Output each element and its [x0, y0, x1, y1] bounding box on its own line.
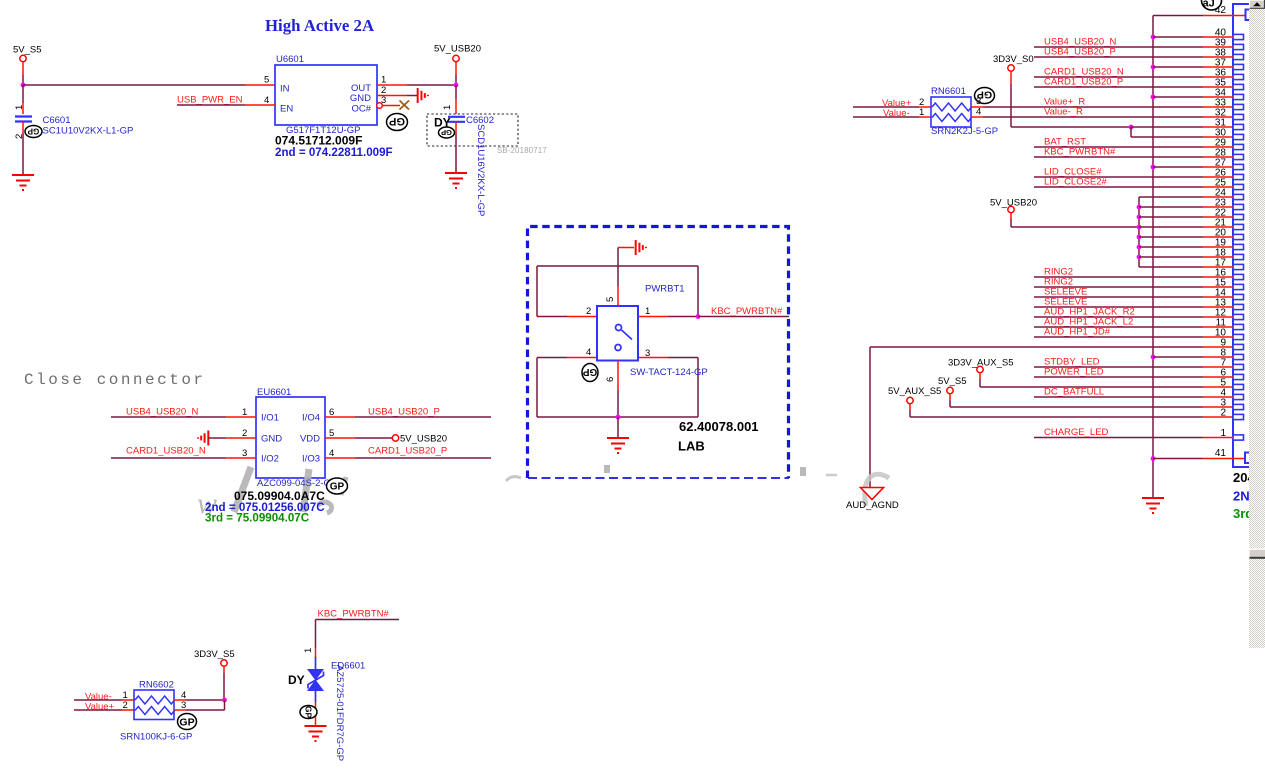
svg-text:RN6602: RN6602	[139, 680, 174, 691]
capacitor C6602	[448, 117, 465, 122]
wire pin4 to 3D3V_S5	[174, 699, 186, 701]
svg-text:RN6601: RN6601	[931, 86, 966, 97]
svg-text:GP: GP	[27, 127, 39, 136]
svg-text:EU6601: EU6601	[257, 387, 291, 398]
wire pin4	[537, 357, 567, 359]
stamp GP RN6601	[975, 88, 995, 104]
watermark square	[604, 465, 610, 473]
svg-text:AZC099-04S-2-GP: AZC099-04S-2-GP	[257, 478, 337, 489]
watermark mark	[826, 474, 837, 477]
diode ED6601 TVS symbol	[308, 657, 324, 702]
ground ED6601	[305, 726, 327, 741]
stamp GP C6601	[25, 126, 42, 138]
svg-text:USB4_USB20_N: USB4_USB20_N	[126, 407, 198, 418]
wire	[455, 62, 457, 75]
svg-text:I/O2: I/O2	[261, 454, 279, 465]
svg-text:1: 1	[919, 107, 924, 118]
scrollbar thumb	[1249, 549, 1265, 559]
wire pin1 to KBC_PWRBTN#	[638, 316, 668, 318]
wire OUT to 5V_USB20	[377, 84, 407, 86]
wire pin2	[537, 316, 567, 318]
stamp aJ top right	[1202, 0, 1222, 10]
dotted DY box C6602	[427, 114, 518, 146]
wire 3D3V_AUX_S5 to pin 5	[979, 373, 981, 379]
svg-text:5: 5	[605, 297, 616, 302]
wire 3D3V_S0	[1010, 71, 1012, 84]
ground	[607, 438, 629, 453]
watermark letters	[197, 467, 346, 520]
svg-text:KBC_PWRBTN#: KBC_PWRBTN#	[711, 306, 783, 317]
component EU6601 body	[256, 397, 325, 478]
wire Value-	[853, 116, 919, 118]
svg-text:5: 5	[264, 75, 269, 86]
ground	[12, 175, 34, 190]
wire GND pin	[377, 95, 407, 97]
svg-text:2: 2	[586, 306, 591, 317]
svg-text:5V_USB20: 5V_USB20	[434, 44, 481, 55]
svg-text:3rd = 75.09904.07C: 3rd = 75.09904.07C	[205, 512, 310, 525]
svg-text:KBC_PWRBTN#: KBC_PWRBTN#	[318, 609, 390, 620]
connector J body outline	[1233, 4, 1249, 467]
watermark mark	[506, 477, 521, 481]
svg-text:USB_PWR_EN: USB_PWR_EN	[177, 95, 243, 106]
svg-text:aJ: aJ	[1203, 0, 1215, 10]
wire pin3 up	[174, 709, 186, 711]
op-amp U6601 body	[275, 65, 377, 125]
wire Value+_R row 33	[971, 106, 983, 108]
wire	[455, 85, 457, 99]
svg-text:AZ5725-01FDR7G-GP: AZ5725-01FDR7G-GP	[334, 665, 345, 761]
svg-text:Value-_R: Value-_R	[1044, 107, 1083, 118]
wire upper loop	[537, 265, 698, 267]
wire USB4_USB20_P	[325, 416, 355, 418]
svg-text:1: 1	[442, 105, 453, 110]
stamp GP ED6601	[300, 706, 317, 719]
svg-text:USB4_USB20_P: USB4_USB20_P	[1044, 47, 1116, 58]
svg-text:6: 6	[605, 377, 616, 382]
svg-text:I/O1: I/O1	[261, 413, 279, 424]
wire feed vertical	[1138, 197, 1140, 267]
wire AUD_AGND vertical	[869, 347, 871, 487]
svg-text:3: 3	[976, 96, 981, 107]
svg-text:POWER_LED: POWER_LED	[1044, 367, 1104, 378]
wire	[698, 316, 789, 318]
svg-text:5V_USB20: 5V_USB20	[990, 198, 1037, 209]
wire KBC_PWRBTN#	[316, 619, 400, 621]
svg-text:5V_USB20: 5V_USB20	[400, 434, 447, 445]
svg-text:GP: GP	[303, 706, 313, 719]
svg-text:GP: GP	[330, 482, 345, 493]
stamp GP U6601	[387, 114, 408, 131]
ground rotated at U6601 GND	[418, 88, 428, 103]
wire 5V_USB20 feed	[1010, 213, 1012, 219]
ground bus	[1142, 498, 1164, 513]
scrollbar up button	[1250, 0, 1265, 9]
wire	[22, 122, 24, 134]
stamp GP C6602	[439, 127, 455, 138]
svg-text:AUD_HP1_JD#: AUD_HP1_JD#	[1044, 327, 1111, 338]
wire	[455, 122, 457, 134]
svg-text:LID_CLOSE2#: LID_CLOSE2#	[1044, 177, 1108, 188]
svg-text:CARD1_USB20_P: CARD1_USB20_P	[368, 446, 447, 457]
scrollbar track	[1249, 0, 1265, 648]
watermark square	[800, 467, 806, 476]
wire VDD to 5V_USB20	[325, 437, 355, 439]
svg-text:GP: GP	[582, 366, 597, 377]
svg-text:42: 42	[1215, 5, 1227, 16]
svg-text:GND: GND	[261, 434, 282, 445]
wire 5V_AUX_S5 to pin 2	[909, 404, 911, 410]
svg-text:5V_S5: 5V_S5	[13, 45, 42, 56]
wire Value+	[853, 106, 919, 108]
wire 3D3V_S5	[223, 666, 225, 673]
capacitor C6601	[15, 117, 32, 122]
svg-text:3D3V_S0: 3D3V_S0	[993, 54, 1034, 65]
power symbol 5V_USB20 right	[1008, 206, 1014, 212]
node junction pin6	[616, 415, 621, 420]
svg-text:I/O4: I/O4	[302, 413, 320, 424]
wire	[1152, 459, 1154, 498]
svg-text:SRN100KJ-6-GP: SRN100KJ-6-GP	[120, 732, 192, 743]
wire 5V_S5 to pin 3	[949, 394, 951, 400]
svg-text:1: 1	[303, 648, 314, 653]
power symbol 5V_S5 right	[947, 387, 953, 393]
power symbol 3D3V_S5	[221, 660, 227, 666]
svg-text:EN: EN	[280, 104, 293, 115]
svg-text:2: 2	[1220, 408, 1226, 419]
svg-text:IN: IN	[280, 84, 290, 95]
wire diode to ground	[315, 702, 317, 725]
wire	[22, 62, 24, 75]
svg-text:DY: DY	[288, 673, 305, 687]
ground rotated at EU6601 pin2	[198, 431, 208, 446]
svg-text:CARD1_USB20_P: CARD1_USB20_P	[1044, 77, 1123, 88]
power symbol 5V_USB20 at EU6601	[392, 435, 398, 441]
svg-text:C6601: C6601	[43, 115, 71, 126]
svg-text:4: 4	[976, 107, 981, 118]
stamp GP EU6601	[327, 478, 348, 494]
wire to pin 30	[1130, 127, 1132, 137]
svg-text:AUD_AGND: AUD_AGND	[846, 500, 899, 511]
wire	[22, 85, 24, 103]
switch contacts and lever	[615, 325, 632, 351]
svg-text:GP: GP	[441, 128, 452, 137]
svg-text:41: 41	[1215, 448, 1227, 459]
power symbol 3D3V_AUX_S5	[977, 366, 983, 372]
stamp GP RN6602	[178, 714, 197, 730]
wire pin 9 net	[870, 346, 1203, 348]
power symbol 5V_USB20	[453, 55, 459, 61]
switch PWRBT1 body	[597, 306, 638, 361]
wire lower loop	[537, 416, 698, 418]
wire	[208, 437, 226, 439]
wire USB4_USB20_N	[111, 416, 226, 418]
node junction 5V_USB20	[454, 83, 459, 88]
ground	[445, 173, 467, 188]
svg-text:DC_BATFULL: DC_BATFULL	[1044, 387, 1104, 398]
wire CARD1_USB20_N	[111, 457, 226, 459]
svg-text:U6601: U6601	[276, 54, 304, 65]
svg-text:GND: GND	[350, 93, 371, 104]
svg-text:62.40078.001: 62.40078.001	[679, 419, 759, 434]
svg-text:PWRBT1: PWRBT1	[645, 284, 685, 295]
svg-text:1: 1	[381, 75, 386, 86]
svg-text:Close connector: Close connector	[24, 371, 206, 389]
node junction 5V_S5	[21, 83, 26, 88]
wire ground bus vertical	[1152, 16, 1154, 459]
svg-text:CARD1_USB20_N: CARD1_USB20_N	[126, 446, 206, 457]
svg-text:I/O3: I/O3	[302, 454, 320, 465]
svg-text:1: 1	[14, 105, 25, 110]
svg-text:4: 4	[586, 347, 591, 358]
wire	[617, 417, 619, 437]
wire Value+	[74, 709, 122, 711]
wire Value-	[74, 699, 122, 701]
power symbol 3D3V_S0	[1008, 65, 1014, 71]
watermark swoosh	[865, 474, 889, 506]
resistor pack RN6601 body	[931, 97, 971, 127]
stamp GP PWRBT1	[582, 364, 598, 382]
svg-text:3: 3	[645, 348, 650, 359]
svg-text:High Active 2A: High Active 2A	[265, 16, 374, 35]
no-connect OC# pin	[377, 103, 383, 109]
svg-text:LAB: LAB	[678, 439, 705, 454]
resistor pack RN6602 body	[134, 690, 174, 720]
svg-text:VDD: VDD	[300, 434, 320, 445]
svg-text:GP: GP	[389, 115, 405, 127]
wire CARD1_USB20_P	[325, 457, 355, 459]
svg-text:GP: GP	[179, 716, 194, 728]
svg-text:5V_S5: 5V_S5	[938, 376, 967, 387]
wire 5V_S5 to U6601 IN	[23, 84, 245, 86]
svg-text:2nd = 074.22811.009F: 2nd = 074.22811.009F	[275, 146, 393, 159]
svg-text:SC1U10V2KX-L1-GP: SC1U10V2KX-L1-GP	[43, 126, 134, 137]
ground AUD_AGND triangle	[861, 488, 884, 500]
wire USB_PWR_EN to EN	[177, 104, 245, 106]
svg-text:CHARGE_LED: CHARGE_LED	[1044, 427, 1109, 438]
node junction RN6602	[222, 698, 227, 703]
svg-text:SRN2K2J-5-GP: SRN2K2J-5-GP	[931, 126, 998, 137]
svg-text:USB4_USB20_P: USB4_USB20_P	[368, 407, 440, 418]
svg-text:3D3V_S5: 3D3V_S5	[194, 649, 235, 660]
svg-text:5V_AUX_S5: 5V_AUX_S5	[888, 386, 941, 397]
node junction KBC_PWRBTN#	[696, 314, 701, 319]
dashed LAB box	[528, 227, 789, 479]
ground rotated top	[636, 240, 646, 255]
svg-text:OC#: OC#	[351, 104, 371, 115]
wire pin5 up	[617, 286, 619, 306]
svg-text:SCD1U16V2KX-L-GP: SCD1U16V2KX-L-GP	[475, 124, 486, 216]
svg-text:2: 2	[123, 700, 128, 711]
power symbol 5V_S5	[20, 55, 26, 61]
svg-text:1: 1	[645, 306, 650, 317]
wire pin6 down	[617, 361, 619, 391]
svg-text:3D3V_AUX_S5: 3D3V_AUX_S5	[948, 358, 1013, 369]
wire to diode	[315, 620, 317, 649]
svg-text:KBC_PWRBTN#: KBC_PWRBTN#	[1044, 147, 1116, 158]
wire pin3	[638, 357, 668, 359]
svg-text:SB-20180717: SB-20180717	[497, 146, 547, 155]
node junction 3D3V_S0	[1129, 125, 1134, 130]
svg-text:Value+: Value+	[85, 702, 115, 713]
svg-text:SW-TACT-124-GP: SW-TACT-124-GP	[630, 367, 708, 378]
wire Value-_R row 32	[971, 116, 983, 118]
wire to pin 31	[1131, 126, 1203, 128]
power symbol 5V_AUX_S5	[907, 397, 913, 403]
